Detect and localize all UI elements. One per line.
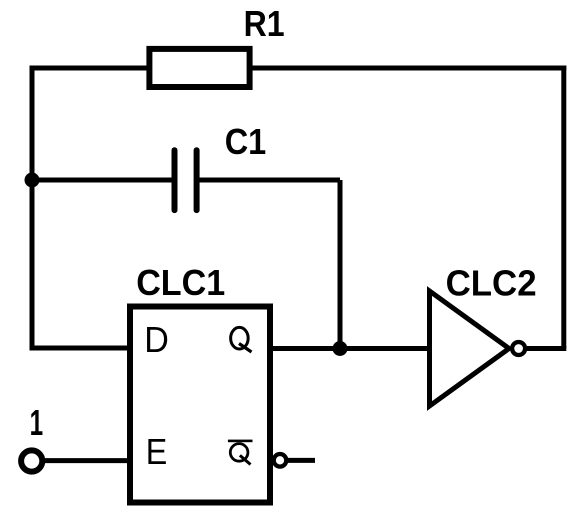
svg-text:D: D bbox=[144, 319, 169, 360]
node junction at Q output bbox=[333, 341, 348, 356]
wire vertical C1-to-Q (down to Q node) bbox=[338, 180, 343, 349]
input terminal 1 (open circle) bbox=[21, 450, 42, 471]
wire C1 left (junction to left plate) bbox=[32, 178, 175, 183]
Q-bar inversion bubble bbox=[274, 454, 287, 467]
node junction at C1/left rail bbox=[25, 173, 40, 188]
wire left vertical (top corner down to D input) bbox=[30, 66, 35, 349]
CLC2 inversion bubble bbox=[512, 342, 525, 355]
svg-text:E: E bbox=[146, 431, 168, 472]
svg-text:R1: R1 bbox=[244, 3, 285, 44]
pin label Q bbox=[231, 327, 252, 352]
wire top left segment (left corner to R1) bbox=[30, 66, 148, 71]
pin label Q-bar bbox=[228, 440, 253, 465]
resistor R1 bbox=[149, 49, 249, 87]
wire Q-bar stub (bubble to open end) bbox=[288, 458, 316, 463]
wire E input (terminal to latch E pin) bbox=[43, 458, 130, 463]
wire inverter output (bubble to right rail) bbox=[525, 346, 566, 351]
wire Q output (latch Q to inverter input) bbox=[270, 346, 430, 351]
capacitor C1 bbox=[175, 150, 197, 210]
svg-text:1: 1 bbox=[30, 402, 43, 443]
svg-text:CLC1: CLC1 bbox=[136, 262, 225, 303]
wire D input (left rail to latch D pin) bbox=[30, 346, 131, 351]
D-latch U CLC1 (body) bbox=[130, 307, 270, 503]
wire top right segment (R1 to right corner) bbox=[252, 66, 566, 71]
wire C1 right (right plate to vertical) bbox=[197, 178, 340, 183]
svg-text:C1: C1 bbox=[225, 121, 267, 162]
wire right vertical (top corner down to inverter output) bbox=[561, 66, 566, 349]
svg-text:CLC2: CLC2 bbox=[446, 262, 537, 303]
inverter CLC2 (triangle) bbox=[430, 291, 510, 406]
